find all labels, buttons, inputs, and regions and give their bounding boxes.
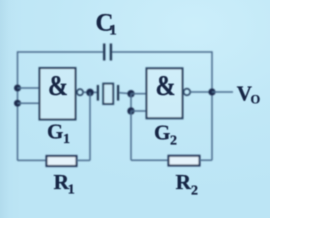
- node A junction dot (feedback tap): [86, 89, 94, 97]
- wire G2 output to node D: [190, 91, 212, 93]
- NAND gate G2 output bubble: [184, 89, 191, 96]
- wire top left from left rail to C1: [18, 51, 104, 53]
- resistor R1 body: [47, 156, 77, 166]
- node D output junction dot: [208, 88, 215, 95]
- node G1 input 2 junction dot: [14, 100, 21, 107]
- svg-text:G: G: [47, 120, 63, 144]
- wire right rail: [211, 51, 213, 160]
- wire feedback left vertical: [89, 92, 91, 160]
- wire top right from C1 to right rail: [112, 51, 212, 53]
- wire node C down to bottom right loop: [130, 111, 132, 160]
- wire G2 input stub 2: [131, 110, 147, 112]
- NAND gate G2 box: [147, 68, 183, 118]
- svg-text:1: 1: [63, 132, 70, 147]
- wire G1 input stub 2: [18, 102, 40, 104]
- svg-text:2: 2: [191, 184, 198, 199]
- resistor R2 body: [169, 156, 200, 166]
- node B junction dot: [127, 90, 134, 97]
- wire G2 input stub 1: [131, 93, 147, 95]
- wire node B down to node C: [130, 94, 132, 111]
- NAND gate G1 output bubble: [77, 89, 83, 95]
- capacitor C1 plates: [104, 44, 111, 61]
- crystal X1 right plate: [117, 85, 119, 101]
- svg-text:1: 1: [68, 183, 75, 198]
- svg-text:G: G: [154, 121, 170, 145]
- wire bottom right loop right segment: [200, 159, 213, 161]
- wire crystal to node B: [119, 92, 131, 95]
- wire left rail: [17, 51, 19, 160]
- crystal X1 left plate: [97, 85, 99, 101]
- NAND gate G1 box: [40, 68, 76, 120]
- wire G1 input stub 1: [18, 87, 40, 89]
- svg-text:1: 1: [109, 23, 117, 39]
- crystal X1 body box: [103, 84, 113, 104]
- svg-text:&: &: [156, 70, 176, 101]
- svg-text:R: R: [176, 170, 192, 194]
- wire bottom left loop right segment: [77, 159, 91, 161]
- wire node D to Vo terminal: [212, 91, 233, 93]
- svg-text:2: 2: [170, 134, 177, 149]
- svg-text:O: O: [251, 93, 261, 107]
- wire G1 output: [83, 91, 97, 93]
- node G1 input 1 junction dot: [14, 85, 21, 92]
- wire bottom right loop left segment: [131, 159, 169, 161]
- svg-text:&: &: [48, 70, 68, 101]
- node C junction dot: [127, 107, 134, 114]
- wire bottom left loop left segment: [18, 159, 47, 161]
